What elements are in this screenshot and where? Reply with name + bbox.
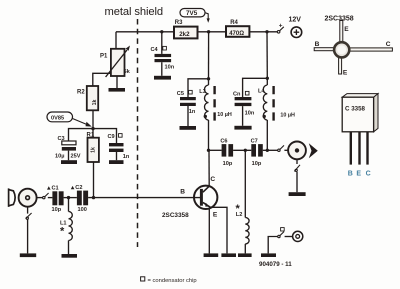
output arrow	[309, 143, 318, 158]
ground under L2	[238, 253, 252, 257]
contact in output shell	[294, 165, 300, 172]
wire: base line C2 to T1	[88, 197, 200, 199]
wire: rail down to L4/Cn	[266, 32, 268, 79]
capacitor C2 100	[71, 185, 88, 213]
svg-text:B: B	[348, 170, 353, 177]
capacitor C1 10p	[47, 186, 64, 213]
ground emitter 1	[204, 253, 219, 257]
capacitor C3 (electrolytic 10u/25V)	[55, 136, 81, 160]
contact in shell lead	[26, 213, 32, 219]
callout 0V85	[47, 112, 92, 127]
ground emitter 2	[221, 253, 236, 257]
inductor L4 10uH	[258, 78, 295, 150]
svg-text:L3: L3	[199, 89, 206, 95]
wire: +12V rail segment right	[249, 31, 277, 33]
inductor L3 10uH	[199, 79, 232, 151]
output coax socket K2	[288, 142, 306, 160]
ground under L1	[62, 254, 78, 258]
svg-text:R2: R2	[77, 90, 85, 96]
svg-text:C2: C2	[75, 185, 82, 191]
svg-text:470Ω: 470Ω	[229, 31, 244, 37]
svg-text:P1: P1	[100, 54, 108, 60]
ground under C4	[154, 76, 171, 80]
ground 0V stub	[261, 253, 276, 257]
svg-text:12V: 12V	[289, 16, 302, 23]
svg-text:2SC3358: 2SC3358	[162, 212, 189, 219]
wire: socket shell down	[27, 207, 29, 214]
capacitor C7 10p	[251, 138, 263, 166]
svg-text:R1: R1	[87, 133, 95, 139]
svg-text:C5: C5	[177, 91, 184, 97]
package drawing C3358 (front view)	[342, 94, 378, 178]
svg-text:5k: 5k	[124, 69, 131, 75]
svg-text:7V5: 7V5	[186, 10, 198, 17]
inductor L1	[60, 198, 72, 254]
metal shield dashed boundary	[137, 19, 139, 247]
wire: P1 top lead	[115, 32, 117, 49]
wire: rail down to L3/C5	[208, 32, 210, 79]
resistor R1	[87, 129, 99, 162]
node after C1	[67, 196, 70, 199]
ground under P1	[109, 88, 126, 92]
svg-text:0V85: 0V85	[51, 116, 64, 122]
svg-text:E: E	[356, 170, 361, 177]
svg-text:C: C	[366, 170, 371, 177]
wire: emitter right and down	[210, 207, 227, 253]
contact at 0V terminal	[278, 228, 285, 238]
wire: bias node to C3	[69, 129, 94, 141]
ground input shell	[20, 253, 36, 257]
svg-text:2k2: 2k2	[179, 31, 190, 38]
wire: contact to output socket	[284, 149, 288, 151]
svg-text:C9: C9	[108, 134, 115, 140]
transistor T1 2SC3358	[162, 176, 218, 219]
wire: C9 to ground	[116, 152, 118, 160]
wire: +12V rail segment middle	[198, 31, 227, 33]
wire: node to C5	[188, 79, 209, 97]
svg-text:= condensator chip: = condensator chip	[148, 278, 197, 284]
ground under Cn	[234, 126, 251, 130]
svg-text:10p: 10p	[252, 161, 262, 167]
svg-text:C3: C3	[58, 136, 65, 142]
wire: collector up	[208, 150, 210, 186]
svg-text:1n: 1n	[123, 154, 130, 160]
node L4 feed on output line	[266, 149, 269, 152]
terminal 0V	[293, 231, 303, 241]
svg-text:1n: 1n	[189, 109, 196, 115]
wire: R1 bottom to base node	[93, 162, 95, 198]
wire: C1 to C2	[64, 197, 77, 199]
svg-text:904079 - 11: 904079 - 11	[259, 261, 292, 268]
capacitor C5 1n (chip)	[177, 90, 196, 126]
callout 7V5	[180, 9, 210, 23]
wire: P1 wiper to R2	[93, 73, 111, 86]
wire: +12V rail segment left	[116, 31, 174, 33]
svg-text:25V: 25V	[71, 154, 81, 160]
wire: shell to ground	[296, 172, 298, 192]
input coax socket K1	[19, 189, 37, 207]
svg-text:C4: C4	[151, 47, 159, 53]
node C4 on rail	[160, 30, 163, 33]
svg-text:C: C	[386, 41, 391, 48]
svg-text:C1: C1	[52, 186, 59, 192]
wire: contact to C1	[48, 197, 53, 199]
svg-text:R3: R3	[175, 20, 183, 26]
svg-text:E: E	[343, 69, 348, 76]
ground under C9	[109, 160, 124, 164]
svg-text:B: B	[315, 41, 320, 48]
svg-text:1k: 1k	[91, 147, 97, 153]
resistor R3	[174, 20, 198, 38]
svg-text:R4: R4	[230, 20, 238, 26]
svg-text:10n: 10n	[245, 111, 255, 117]
svg-text:10 µH: 10 µH	[217, 112, 232, 118]
terminal 12V	[289, 16, 302, 37]
node: 0V85 bias junction	[91, 127, 94, 130]
capacitor C6 10p	[220, 138, 233, 166]
wire: C6 to C7	[233, 149, 251, 151]
inductor L2	[236, 150, 250, 253]
svg-text:C6: C6	[220, 138, 227, 144]
svg-text:2SC3358: 2SC3358	[325, 16, 354, 23]
svg-text:metal shield: metal shield	[105, 6, 164, 18]
resistor R2	[77, 86, 98, 110]
wire: P1 bottom lead	[116, 76, 118, 88]
svg-text:E: E	[213, 211, 218, 218]
wire: R2 bottom to bias node	[92, 110, 94, 128]
node on rail above L3	[207, 30, 210, 33]
legend: chip capacitor note	[141, 277, 197, 284]
svg-text:10µ: 10µ	[55, 154, 64, 160]
node rail above L4	[265, 30, 268, 33]
node L4/Cn	[266, 77, 269, 80]
node L3/C5	[207, 77, 210, 80]
wire: ground stub to 0V contact	[268, 237, 277, 254]
wire: second emitter down	[208, 209, 210, 254]
svg-text:C 3358: C 3358	[345, 106, 366, 113]
contact at 12V supply	[277, 23, 283, 33]
ground output shell	[289, 192, 306, 196]
potentiometer P1	[100, 46, 131, 78]
node L2 junction	[244, 149, 247, 152]
svg-text:E: E	[344, 26, 349, 33]
capacitor C4 10n (chip)	[151, 32, 175, 76]
package drawing 2SC3358 (top view)	[314, 16, 392, 77]
wire: node to C6	[209, 149, 222, 151]
wire: socket to contact	[37, 197, 43, 199]
svg-text:C: C	[210, 176, 215, 183]
node collector/L3/C6	[207, 149, 210, 152]
wire: bias node to C9	[93, 129, 117, 143]
capacitor Cn 10n (chip)	[233, 91, 255, 125]
node base/R1/C2	[92, 196, 95, 199]
svg-text:10p: 10p	[52, 207, 62, 213]
resistor R4	[226, 20, 249, 37]
svg-text:L2: L2	[236, 212, 243, 218]
svg-text:10 µH: 10 µH	[280, 113, 295, 119]
wire: C7 to output contact	[263, 149, 278, 151]
svg-text:Cn: Cn	[233, 92, 241, 98]
svg-text:100: 100	[78, 207, 87, 213]
capacitor C9 1n (chip)	[108, 134, 130, 160]
ground under C3	[61, 160, 77, 164]
svg-text:B: B	[180, 189, 185, 196]
svg-text:1k: 1k	[92, 100, 98, 106]
wire: contact to 0V terminal	[285, 236, 293, 238]
svg-text:10p: 10p	[223, 161, 233, 167]
antenna input symbol	[9, 188, 16, 207]
wire: node to Cn	[243, 78, 268, 97]
wire: output shell down	[296, 159, 298, 164]
contact at input	[43, 193, 49, 199]
ground under C5	[180, 126, 197, 130]
svg-text:10n: 10n	[165, 65, 175, 71]
contact at output	[278, 145, 284, 151]
svg-text:C7: C7	[251, 138, 258, 144]
svg-text:L4: L4	[258, 89, 265, 95]
wire: shell to ground	[27, 219, 29, 253]
svg-text:+: +	[279, 23, 283, 30]
wire: C3 to ground	[68, 151, 70, 161]
svg-text:*: *	[60, 226, 65, 238]
